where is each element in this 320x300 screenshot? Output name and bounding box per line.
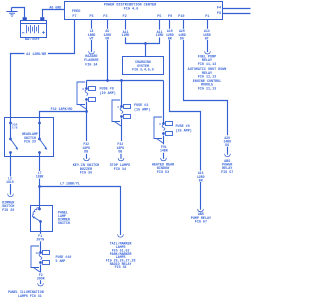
svg-text:F1: F1 — [205, 15, 209, 19]
svg-text:14BR: 14BR — [160, 149, 168, 153]
svg-text:20TN: 20TN — [36, 238, 44, 242]
svg-text:12RD: 12RD — [122, 33, 130, 37]
svg-text:F10: F10 — [178, 15, 184, 19]
svg-text:DB: DB — [118, 150, 122, 154]
svg-text:FIG 45: FIG 45 — [115, 265, 127, 269]
svg-text:F2: F2 — [122, 15, 126, 19]
svg-text:DB: DB — [84, 150, 88, 154]
svg-text:F6: F6 — [157, 15, 161, 19]
svg-text:F5: F5 — [89, 15, 93, 19]
svg-text:FIG 57: FIG 57 — [221, 171, 233, 175]
svg-text:BR: BR — [199, 179, 203, 183]
svg-text:LAMPS FIG 31: LAMPS FIG 31 — [18, 294, 42, 298]
svg-text:DG: DG — [180, 36, 184, 40]
svg-text:(25 AMP): (25 AMP) — [176, 129, 192, 134]
svg-text:FIG 11,13: FIG 11,13 — [198, 63, 216, 67]
svg-text:F3: F3 — [103, 15, 107, 19]
svg-text:FUSE #6: FUSE #6 — [176, 125, 190, 129]
svg-text:12RD: 12RD — [156, 33, 164, 37]
svg-text:F7: F7 — [72, 15, 76, 19]
svg-text:(20 AMP): (20 AMP) — [100, 91, 116, 96]
svg-text:FIG 4,6: FIG 4,6 — [124, 7, 139, 11]
svg-text:5 AMP: 5 AMP — [56, 259, 66, 263]
svg-text:FUSE #3: FUSE #3 — [134, 104, 148, 108]
svg-text:FIG 29: FIG 29 — [24, 140, 36, 144]
svg-text:FIG 36: FIG 36 — [80, 172, 92, 176]
svg-text:WT: WT — [205, 36, 209, 40]
svg-text:SWITCH: SWITCH — [58, 221, 70, 225]
svg-text:FLASHER: FLASHER — [84, 59, 99, 63]
svg-text:18LG: 18LG — [6, 180, 14, 184]
svg-text:18BK: 18BK — [36, 175, 44, 179]
svg-text:FIG 29: FIG 29 — [2, 209, 14, 213]
svg-text:(15 AMP): (15 AMP) — [134, 108, 150, 113]
svg-text:FUSE #8: FUSE #8 — [100, 88, 114, 92]
svg-text:10: 10 — [35, 252, 39, 255]
svg-text:FIG 57: FIG 57 — [195, 221, 207, 225]
svg-text:FIG 34: FIG 34 — [85, 63, 97, 67]
svg-text:DG: DG — [225, 143, 229, 147]
svg-text:F8: F8 — [217, 12, 221, 16]
svg-text:F4: F4 — [217, 6, 221, 10]
svg-text:A0 6RD: A0 6RD — [49, 6, 61, 10]
svg-text:F9: F9 — [168, 15, 172, 19]
svg-text:OR: OR — [105, 36, 109, 40]
svg-text:C/B: C/B — [12, 126, 18, 130]
svg-text:BR: BR — [168, 36, 172, 40]
svg-text:A3 12RD/BR: A3 12RD/BR — [26, 52, 46, 56]
svg-text:WT: WT — [90, 36, 94, 40]
svg-text:FEED: FEED — [72, 10, 80, 14]
svg-text:FIG 53: FIG 53 — [157, 171, 169, 175]
svg-text:L7 18BK/YL: L7 18BK/YL — [60, 181, 80, 185]
svg-text:20OR: 20OR — [37, 277, 45, 281]
svg-text:BATTERY: BATTERY — [25, 38, 41, 42]
svg-text:FIG 3,4,5,6: FIG 3,4,5,6 — [132, 67, 154, 71]
svg-text:FIG 34: FIG 34 — [114, 168, 126, 172]
svg-text:F32 18PK/RD: F32 18PK/RD — [51, 107, 73, 111]
svg-text:FIG 11,13: FIG 11,13 — [198, 87, 216, 91]
